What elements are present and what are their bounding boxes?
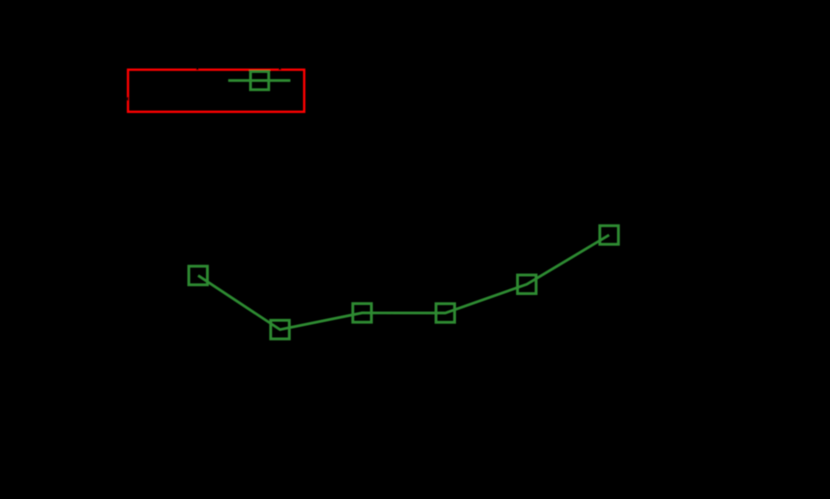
legend box (red) — [128, 70, 304, 112]
legend sample line — [228, 79, 290, 82]
data line (green series) — [198, 235, 609, 330]
marker point 6 — [600, 226, 619, 245]
left axis tick notch over legend box at y=98.7 — [127, 97, 129, 101]
legend sample marker (open square) — [251, 72, 269, 90]
top axis tick notch over legend box at x=197 — [196, 68, 198, 70]
top axis tick notch over legend box at x=280 — [279, 68, 282, 70]
marker point 1 — [189, 266, 208, 285]
marker point 4 — [436, 304, 455, 323]
marker point 3 — [353, 304, 372, 323]
marker point 5 — [518, 275, 537, 294]
marker point 2 — [271, 320, 290, 339]
